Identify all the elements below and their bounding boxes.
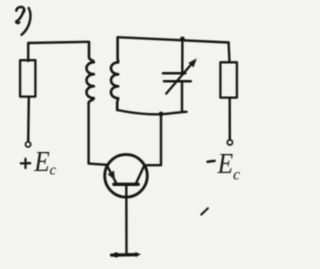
wire: C1 top lead xyxy=(181,39,183,72)
wire: bottom tank wire from L2 to below C1 xyxy=(117,110,186,114)
wire: base lead down to ground xyxy=(125,186,128,254)
variable-capacitor arrow through C1 xyxy=(166,58,197,93)
wire: resistor R1 bottom lead down to +Ec terminal xyxy=(27,97,30,142)
figure label "г)" xyxy=(15,7,30,35)
transistor Q1 base bar xyxy=(114,183,138,186)
svg-text:E: E xyxy=(217,149,233,180)
capacitor C1 (variable) top plate xyxy=(163,72,185,75)
transistor Q1 collector slant xyxy=(136,166,144,183)
label +Ec xyxy=(21,147,57,179)
inductor L1 (left winding of transformer) xyxy=(87,43,94,103)
terminal -Ec (open circle) xyxy=(227,140,232,145)
junction dot (bottom tank wire / collector wire) xyxy=(159,112,164,117)
wire: top tank wire from L2 to right resistor corner xyxy=(118,37,229,42)
svg-text:E: E xyxy=(33,147,49,178)
wire: collector wire from junction down and left to transistor xyxy=(147,114,161,165)
ground xyxy=(112,252,141,258)
stray mark (scan artifact, lower right) xyxy=(201,208,208,214)
resistor R2 (right, -Ec feed) xyxy=(220,62,237,97)
transistor Q1 emitter arrow (PNP, pointing to base) xyxy=(108,171,115,181)
junction dot (top wire / C1 top lead) xyxy=(180,37,185,42)
wire: resistor R2 bottom lead down to -Ec terminal xyxy=(228,98,231,140)
svg-text:с: с xyxy=(50,163,57,179)
transistor Q1 emitter slant xyxy=(107,166,116,183)
wire: +Ec resistor top lead and top-left horizontal wire to left winding xyxy=(28,42,89,61)
wire: C1 bottom lead down to bottom tank wire xyxy=(181,81,183,112)
capacitor C1 bottom plate xyxy=(164,80,191,83)
terminal +Ec (open circle) xyxy=(26,142,31,147)
resistor R1 (left, +Ec feed) xyxy=(20,60,35,96)
transistor Q1 (PNP) body circle xyxy=(105,155,148,198)
label -Ec xyxy=(208,149,241,184)
wire: left winding bottom down and right to transistor emitter xyxy=(89,103,107,165)
wire: right corner down to resistor R2 xyxy=(227,43,230,63)
inductor L2 (right winding, tank coil) xyxy=(111,38,118,110)
svg-text:с: с xyxy=(233,167,240,184)
